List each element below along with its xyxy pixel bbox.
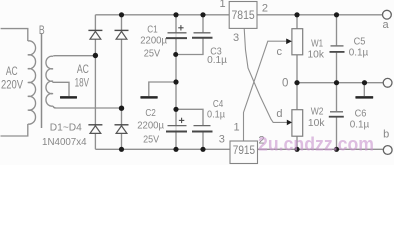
svg-text:c: c xyxy=(276,46,282,58)
svg-text:2200µ: 2200µ xyxy=(137,119,164,131)
svg-text:AC: AC xyxy=(77,62,89,76)
svg-text:0.1µ: 0.1µ xyxy=(207,54,227,66)
svg-text:0.1µ: 0.1µ xyxy=(350,118,370,130)
svg-text:0: 0 xyxy=(282,77,288,89)
svg-text:b: b xyxy=(383,128,389,140)
svg-text:3: 3 xyxy=(219,133,225,145)
svg-text:10k: 10k xyxy=(307,49,324,61)
svg-text:AC: AC xyxy=(6,64,18,78)
svg-text:B: B xyxy=(39,23,45,37)
svg-text:2200µ: 2200µ xyxy=(140,34,167,46)
svg-text:C2: C2 xyxy=(145,107,156,119)
svg-text:W2: W2 xyxy=(311,105,324,117)
svg-text:3: 3 xyxy=(233,32,239,44)
svg-text:10k: 10k xyxy=(308,117,325,129)
svg-text:25V: 25V xyxy=(144,48,160,60)
svg-text:18V: 18V xyxy=(75,75,89,89)
svg-text:0.1µ: 0.1µ xyxy=(349,47,369,59)
svg-text:25V: 25V xyxy=(143,134,159,146)
svg-text:0.1µ: 0.1µ xyxy=(207,108,225,120)
svg-text:220V: 220V xyxy=(1,77,23,91)
svg-text:a: a xyxy=(383,19,390,31)
svg-text:1: 1 xyxy=(233,122,239,134)
svg-text:2: 2 xyxy=(262,3,268,15)
svg-text:7915: 7915 xyxy=(233,143,255,157)
svg-text:7815: 7815 xyxy=(232,8,255,22)
svg-text:1N4007x4: 1N4007x4 xyxy=(42,136,87,148)
svg-text:2u.cndzz.com: 2u.cndzz.com xyxy=(258,133,374,155)
svg-text:D1~D4: D1~D4 xyxy=(50,122,82,133)
svg-text:d: d xyxy=(276,108,282,120)
svg-text:1: 1 xyxy=(219,0,225,10)
